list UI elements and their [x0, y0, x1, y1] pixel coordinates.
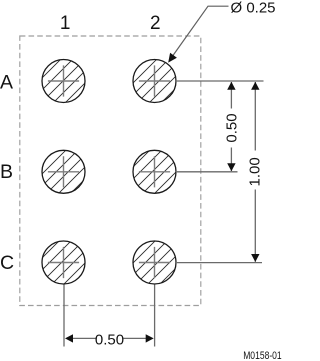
svg-text:0.50: 0.50	[223, 113, 240, 142]
pad A2	[133, 60, 176, 103]
svg-text:0.50: 0.50	[95, 332, 124, 349]
dimension 1.00 bottom arrow	[251, 254, 259, 262]
svg-text:Ø 0.25: Ø 0.25	[231, 0, 276, 17]
svg-text:A: A	[0, 72, 13, 94]
pad C2	[133, 241, 176, 284]
dimension 0.50 horizontal line	[73, 337, 146, 339]
leader arrowhead	[168, 53, 177, 63]
svg-text:C: C	[0, 252, 14, 274]
pad B2	[133, 150, 176, 193]
package outline (dashed boundary)	[20, 36, 201, 306]
extension line row B	[177, 171, 238, 173]
svg-text:B: B	[0, 161, 13, 183]
dimension 0.50 horizontal right arrow	[146, 334, 154, 342]
svg-text:2: 2	[150, 13, 161, 34]
svg-text:M0158-01: M0158-01	[243, 350, 282, 361]
svg-text:1: 1	[60, 13, 71, 34]
extension line row A	[177, 80, 264, 82]
pad B1	[42, 150, 85, 193]
pad A1	[42, 60, 85, 103]
extension line column 2	[154, 285, 156, 347]
dimension 0.50 vertical line	[230, 82, 232, 171]
extension line row C	[177, 262, 262, 264]
dimension 0.50 horizontal left arrow	[65, 334, 73, 342]
extension line column 1	[63, 285, 65, 347]
svg-text:1.00: 1.00	[246, 157, 263, 186]
dimension 0.50 vertical top arrow	[227, 82, 235, 90]
dimension 1.00 vertical line	[254, 82, 256, 262]
dimension 0.50 vertical bottom arrow	[227, 163, 235, 171]
dimension 1.00 top arrow	[251, 82, 259, 90]
pad C1	[42, 241, 85, 284]
leader line	[170, 6, 229, 60]
